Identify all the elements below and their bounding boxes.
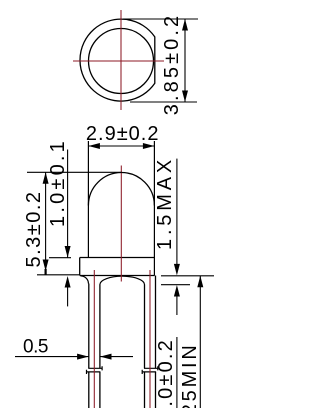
svg-text:3.85±0.2: 3.85±0.2 (161, 13, 183, 116)
arrow left to leg right wall for 0.5 (100, 354, 112, 360)
dimension line 25MIN vertical (199, 276, 201, 408)
break symbol left leg lower dash (87, 370, 101, 374)
outside arrow up below shoulder line for 1.0±0.2 (174, 285, 180, 297)
svg-text:25MIN: 25MIN (179, 342, 201, 408)
svg-text:1.5MAX: 1.5MAX (154, 156, 176, 250)
left leg left wall lower (88, 372, 90, 408)
extension line A flange bottom right (161, 275, 214, 277)
flange left edge (79, 258, 81, 276)
arrow up at top of 3.85 dimension (182, 19, 188, 31)
side view: dome outline (88, 173, 154, 206)
dimension line 1.0±0.1 vertical (67, 150, 69, 258)
extension line flange top left (49, 257, 71, 259)
arrow right to leg left wall for 0.5 (77, 354, 89, 360)
top view: red horizontal centerline (73, 60, 164, 62)
dimension line 5.3 vertical (45, 172, 47, 274)
dimension line 2.9 horizontal (88, 145, 154, 147)
top view: red vertical centerline (120, 10, 122, 110)
svg-text:5.3±0.2: 5.3±0.2 (23, 190, 45, 267)
left leg left wall upper (88, 284, 90, 369)
arrow down at bottom of 3.85 dimension (182, 91, 188, 103)
tail below 1.0±0.2 arrow (176, 296, 178, 315)
extension line dome top (27, 171, 122, 173)
arrow down to flange bottom for 1.5MAX (174, 264, 180, 276)
red centerline left leg (93, 270, 95, 408)
top view: outer flange circle with right flat (80, 19, 155, 101)
arrow right of 2.9 dimension (143, 143, 155, 149)
extension line bottom of circle (130, 101, 197, 103)
dimension line 1.5MAX vertical (176, 159, 178, 264)
svg-text:1.0±0.2: 1.0±0.2 (155, 338, 177, 408)
right leg right wall lower (155, 372, 157, 408)
dimension line 3.85 vertical (184, 19, 186, 102)
tail below outside arrow (67, 287, 69, 306)
dimension line 0.5 left segment (15, 356, 89, 358)
top view: inner body circle (89, 29, 154, 94)
stub below 5.3 arrow (44, 269, 46, 275)
side view: right wall with extension up and down to flange bottom (153, 141, 155, 276)
outside arrow up below flange bottom for 1.0±0.1 (65, 276, 71, 288)
break symbol right leg upper dash (144, 366, 158, 370)
arrow left of 2.9 dimension (88, 143, 100, 149)
svg-text:1.0±0.1: 1.0±0.1 (47, 138, 69, 227)
right leg left wall lower (144, 372, 146, 408)
break symbol right leg lower dash (142, 370, 156, 374)
flange top line (80, 257, 155, 259)
break symbol left leg upper dash (88, 366, 102, 370)
fillet arc under flange left (81, 276, 89, 284)
arrow up at top of 5.3 dimension (43, 172, 49, 184)
red centerline right leg (149, 270, 151, 408)
side view: left wall with extension up to 2.9 dim (87, 141, 89, 258)
left leg right wall lower (99, 372, 101, 408)
right leg right wall upper (155, 276, 157, 369)
extension line flange bottom left (37, 274, 80, 276)
svg-text:2.9±0.2: 2.9±0.2 (86, 123, 160, 145)
left leg right wall upper (99, 285, 101, 369)
text landing line 1.0±0.2 (176, 337, 178, 408)
flange bottom line (80, 275, 155, 277)
extension line B shoulder right (161, 284, 190, 286)
svg-text:0.5: 0.5 (23, 336, 48, 357)
arch between legs under flange (100, 276, 145, 284)
right leg left wall upper (144, 285, 146, 369)
arrow down at bottom of 5.3 dimension (43, 260, 49, 272)
extension line top of circle (123, 18, 198, 20)
red main centerline of body (120, 166, 122, 282)
arrow down to flange top for 1.0±0.1 (65, 246, 71, 258)
arrow up to flange bottom for 25MIN (197, 276, 203, 288)
dimension line 0.5 right segment (100, 356, 133, 358)
